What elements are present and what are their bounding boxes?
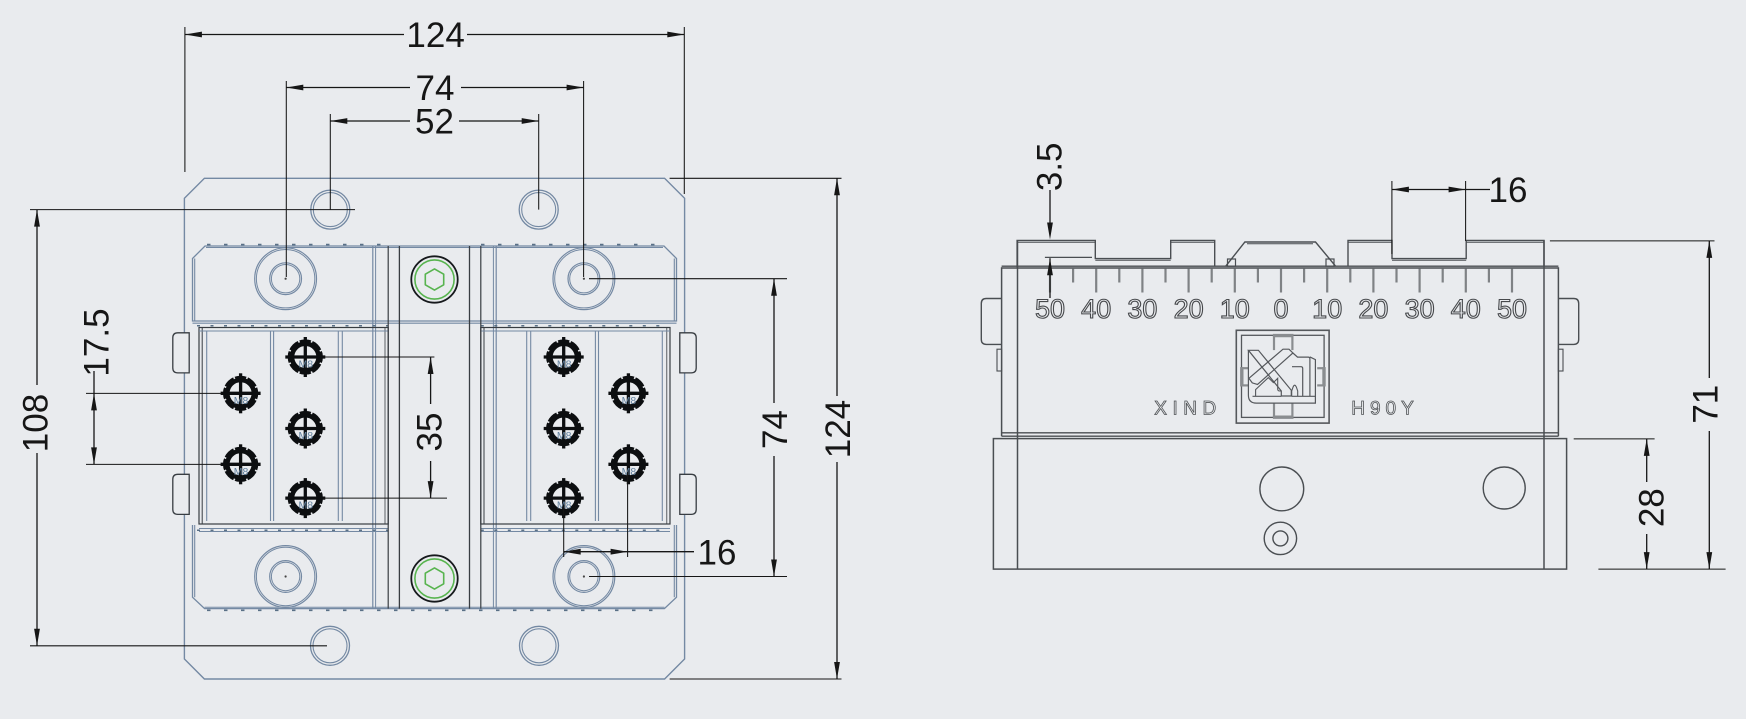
dimension 74 top	[286, 87, 410, 89]
svg-text:16: 16	[698, 533, 737, 572]
ruler scale ticks	[1049, 269, 1051, 293]
svg-text:16: 16	[1489, 171, 1528, 210]
dimension 17.5	[93, 371, 95, 464]
vise body upper block	[193, 246, 677, 321]
ear tab lower-left	[173, 474, 189, 514]
dimension 16 left view	[564, 551, 694, 553]
hex socket screw top	[411, 256, 457, 302]
svg-text:35: 35	[411, 413, 450, 452]
base plate outline (plan view)	[184, 178, 684, 679]
dimension 17.5 leader lines	[86, 392, 222, 394]
hex socket screw bottom	[411, 555, 457, 601]
serrated clamp surface bottom	[207, 609, 662, 611]
dimension 35	[430, 357, 432, 404]
center hump	[1226, 242, 1336, 266]
logo emblem frame	[1248, 350, 1315, 403]
body slot edge left	[372, 246, 374, 609]
dimension 108 leader lines	[30, 209, 355, 211]
dimension 74 right	[773, 279, 775, 403]
left jaw top/bottom edges	[199, 330, 388, 332]
dimension 28 extension line	[1574, 438, 1655, 440]
ear tab upper-left	[173, 333, 189, 373]
logo emblem hook outer	[1293, 353, 1310, 396]
dimension 71	[1708, 241, 1710, 378]
M8 tapped hole 6	[608, 373, 648, 413]
front view outer wall right	[1557, 267, 1559, 436]
dimension 16 front view	[1392, 189, 1490, 191]
logo emblem frame inner bottom	[1253, 395, 1282, 397]
svg-text:28: 28	[1633, 488, 1672, 527]
logo emblem X arm B band	[1249, 349, 1293, 384]
boss circle upper-left	[255, 248, 317, 310]
boss circle lower-right	[553, 546, 615, 608]
dimension 28	[1646, 439, 1648, 482]
lower block hole center	[1260, 467, 1304, 511]
dimension 16 front view extension lines	[1391, 181, 1393, 254]
front view body left wall	[1017, 240, 1019, 569]
M8 tapped hole 4	[285, 409, 325, 449]
front view top tab 3 and 4 profile	[1348, 240, 1544, 266]
front view side ear left	[981, 299, 1001, 345]
svg-text:124: 124	[819, 400, 858, 458]
dimension 124 right extension lines	[670, 177, 842, 179]
dimension 108	[36, 210, 38, 385]
ear tab upper-right	[680, 333, 696, 373]
M8 tapped hole 1	[221, 373, 261, 413]
boss circle upper-right	[553, 248, 615, 310]
plate mounting hole top-left	[311, 190, 350, 229]
svg-text:XIND: XIND	[1154, 398, 1221, 419]
logo emblem hook inner	[1292, 367, 1303, 396]
M8 tapped hole 5	[285, 478, 325, 518]
ear tab lower-right	[680, 474, 696, 514]
front body bottom edge	[1002, 432, 1559, 434]
logo emblem outer square	[1236, 330, 1329, 423]
svg-text:40: 40	[1081, 294, 1111, 324]
dimension 16 left view extension lines	[563, 505, 565, 557]
plate mounting hole bottom-right	[520, 626, 559, 665]
logo emblem inner square	[1242, 335, 1325, 417]
left jaw inner lines	[206, 331, 208, 521]
lower block outline	[993, 439, 1566, 569]
svg-text:108: 108	[17, 394, 56, 452]
svg-text:10: 10	[1312, 294, 1342, 324]
dimension 124 top extension lines	[184, 27, 186, 172]
svg-text:52: 52	[415, 103, 454, 142]
dimension 71 extension lines	[1550, 240, 1715, 242]
right jaw top/bottom edges	[481, 330, 670, 332]
right jaw inner lines	[661, 331, 663, 521]
svg-text:20: 20	[1358, 294, 1388, 324]
left jaw plate outline	[199, 328, 388, 525]
M8 tapped hole 2	[221, 444, 261, 484]
logo emblem X arm A	[1248, 350, 1291, 396]
M8 tapped hole 9	[544, 409, 584, 449]
dimension 124 top	[185, 34, 404, 36]
M8 tapped hole 8	[544, 337, 584, 377]
front view top tab 1 and 2 profile	[1017, 240, 1215, 267]
boss circle lower-left	[255, 546, 317, 608]
dimension 52	[330, 120, 410, 122]
svg-text:0: 0	[1273, 294, 1288, 324]
svg-text:124: 124	[406, 16, 464, 55]
svg-text:74: 74	[756, 410, 795, 449]
logo emblem mountains left	[1256, 378, 1282, 397]
vise body lower block	[193, 525, 677, 609]
dimension 52 extension lines	[329, 114, 331, 210]
svg-text:40: 40	[1451, 294, 1481, 324]
dimension 74 right leader lines	[589, 278, 787, 280]
front view body top edge	[1002, 265, 1559, 267]
dimension 124 right	[836, 178, 838, 396]
logo emblem thick gate segments	[1273, 334, 1294, 337]
plate mounting hole bottom-left	[311, 626, 350, 665]
svg-text:10: 10	[1220, 294, 1250, 324]
front view outer wall left	[1001, 267, 1003, 436]
M8 tapped hole 3	[285, 337, 325, 377]
logo emblem stub bars	[1273, 336, 1275, 350]
logo emblem mountain right	[1292, 385, 1298, 396]
svg-text:50: 50	[1497, 294, 1527, 324]
svg-text:50: 50	[1035, 294, 1065, 324]
center rail inner edges	[398, 246, 400, 609]
M8 tapped hole 7	[608, 444, 648, 484]
svg-text:3.5: 3.5	[1031, 142, 1070, 191]
right jaw plate outline	[481, 328, 670, 525]
front view body right wall	[1543, 240, 1545, 569]
svg-text:H90Y: H90Y	[1351, 398, 1419, 419]
dimension 74 top extension lines	[285, 81, 287, 277]
lower block small hole	[1264, 522, 1296, 554]
body slot edge right	[492, 246, 494, 609]
svg-text:30: 30	[1127, 294, 1157, 324]
svg-text:71: 71	[1687, 385, 1726, 424]
serrated clamp surface top	[207, 244, 662, 246]
lower block hole right	[1483, 467, 1525, 509]
dimension 35 leader lines	[323, 356, 434, 358]
front view side ear right	[1558, 299, 1578, 345]
svg-text:20: 20	[1174, 294, 1204, 324]
svg-text:17.5: 17.5	[78, 308, 117, 376]
M8 tapped hole 10	[544, 478, 584, 518]
center rail outline	[387, 246, 389, 609]
tab1 recess depth line (3.5)	[1045, 256, 1092, 258]
svg-text:30: 30	[1405, 294, 1435, 324]
serrated interface rows	[197, 325, 668, 327]
plate mounting hole top-right	[519, 190, 558, 229]
